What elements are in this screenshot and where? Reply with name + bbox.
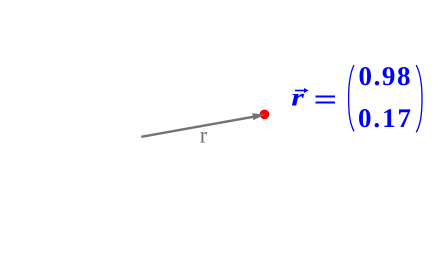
label r (vector name)	[200, 123, 208, 148]
vector r (gray arrow shaft)	[141, 116, 255, 136]
formula: value 0.17 (y component)	[358, 103, 411, 133]
formula: right parenthesis	[416, 65, 422, 132]
svg-text:0.98: 0.98	[359, 61, 411, 91]
formula: left parenthesis	[349, 65, 354, 131]
formula: equals sign	[316, 96, 335, 104]
formula: value 0.98 (x component)	[359, 61, 411, 91]
point A (red endpoint of vector)	[260, 110, 269, 119]
vector r arrowhead	[252, 113, 264, 120]
svg-text:0.17: 0.17	[358, 103, 411, 133]
formula: r vec (blue italic r)	[291, 85, 304, 112]
svg-text:r: r	[291, 85, 304, 112]
svg-text:r: r	[200, 123, 208, 148]
formula: arrow over r	[295, 88, 309, 93]
